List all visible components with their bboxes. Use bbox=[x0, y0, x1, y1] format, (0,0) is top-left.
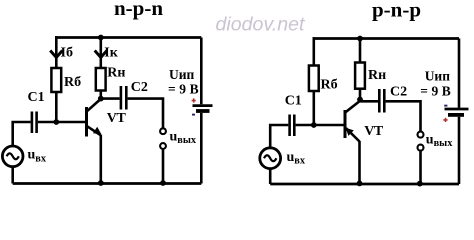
svg-text:uвых: uвых bbox=[170, 129, 197, 146]
node: bottom rail dot at output bbox=[160, 180, 166, 186]
label - minus right battery bbox=[444, 105, 447, 107]
terminal: output upper bbox=[160, 128, 166, 134]
wire: C2 to output corner bbox=[128, 99, 163, 129]
label + plus left battery bbox=[192, 98, 196, 102]
label Rb right bbox=[321, 78, 338, 93]
wire: top rail right circuit bbox=[313, 37, 460, 40]
transistor VT (n-p-n) bbox=[87, 99, 102, 137]
label Rb bbox=[64, 75, 81, 90]
wire: C2 to output corner right bbox=[386, 101, 421, 131]
wire: source to bottom rail right bbox=[269, 168, 272, 184]
capacitor C2 right bbox=[379, 89, 384, 113]
wire: emitter to bottom rail bbox=[100, 135, 103, 184]
title n-p-n bbox=[114, 0, 163, 20]
svg-text:p-n-p: p-n-p bbox=[372, 0, 421, 22]
wire: collector node to C2 bbox=[101, 97, 120, 100]
wire: Rn down to collector node right bbox=[359, 89, 362, 102]
resistor Rn bbox=[96, 68, 106, 91]
wire: Ib branch vertical bbox=[55, 36, 58, 68]
svg-text:C2: C2 bbox=[390, 85, 407, 100]
svg-text:Rн: Rн bbox=[368, 68, 386, 83]
svg-text:uвых: uвых bbox=[426, 132, 453, 149]
node: junction dot top rail / Ik bbox=[98, 35, 104, 41]
svg-text:C2: C2 bbox=[131, 80, 148, 95]
svg-text:Iк: Iк bbox=[104, 46, 118, 61]
svg-text:Uип: Uип bbox=[169, 67, 195, 82]
wire: emitter to bottom rail right bbox=[358, 141, 361, 184]
label C2 right bbox=[390, 85, 407, 100]
label Uip left bbox=[169, 67, 195, 82]
svg-text:Rн: Rн bbox=[107, 66, 125, 81]
label C1 right bbox=[285, 94, 302, 109]
label uvx bbox=[28, 148, 47, 165]
source uvx generator right bbox=[260, 148, 281, 169]
resistor Rb bbox=[51, 68, 61, 92]
wire: bottom rail right circuit bbox=[270, 183, 459, 186]
wire: lower terminal to bottom rail bbox=[162, 149, 165, 184]
svg-text:Uип: Uип bbox=[425, 68, 451, 83]
wire: top rail left circuit bbox=[55, 36, 201, 39]
svg-text:VT: VT bbox=[107, 111, 127, 126]
label VT right bbox=[364, 124, 384, 139]
arrow Ib current bbox=[50, 51, 62, 58]
label = 9 V right bbox=[420, 83, 451, 98]
svg-text:diodov.net: diodov.net bbox=[216, 14, 307, 36]
label uvx right bbox=[287, 150, 306, 167]
wire: bottom rail left circuit bbox=[13, 182, 202, 185]
svg-text:uвх: uвх bbox=[28, 148, 47, 165]
label Uip right bbox=[425, 68, 451, 83]
svg-text:uвх: uвх bbox=[287, 150, 306, 167]
svg-text:= 9 В: = 9 В bbox=[420, 83, 451, 98]
label Rn right bbox=[368, 68, 386, 83]
svg-text:Iб: Iб bbox=[61, 46, 73, 61]
svg-text:n-p-n: n-p-n bbox=[114, 0, 163, 20]
wire: collector node to C2 right bbox=[360, 100, 378, 103]
resistor Rn right bbox=[355, 63, 365, 89]
resistor Rb right bbox=[309, 66, 319, 92]
label = 9 V left bbox=[168, 82, 199, 97]
node: collector junction dot bbox=[98, 96, 104, 102]
label uvyh right bbox=[426, 132, 453, 149]
node: bottom rail dot at emitter bbox=[98, 180, 104, 186]
label C2 bbox=[131, 80, 148, 95]
wire: C1 to base right bbox=[296, 124, 344, 127]
svg-text:Rб: Rб bbox=[64, 75, 81, 90]
battery GB2 bbox=[445, 39, 469, 185]
wire: lower terminal to bottom rail right bbox=[419, 151, 422, 184]
node: bottom rail dot at output right bbox=[417, 181, 423, 187]
label + plus right battery bbox=[443, 118, 447, 122]
capacitor C1 right bbox=[290, 115, 295, 137]
battery GB1 bbox=[193, 38, 213, 184]
wire: Rb to base rail bbox=[55, 92, 58, 122]
svg-text:Rб: Rб bbox=[321, 78, 338, 93]
label C1 bbox=[28, 90, 45, 105]
node: base junction dot bbox=[53, 119, 59, 125]
svg-text:C1: C1 bbox=[285, 94, 302, 109]
node: top rail dot right bbox=[357, 36, 363, 42]
capacitor C2 bbox=[121, 86, 126, 110]
node: bottom rail dot at emitter right bbox=[357, 181, 363, 187]
node: base junction dot right bbox=[311, 122, 317, 128]
terminal: output lower right bbox=[418, 145, 424, 151]
label Ik bbox=[104, 46, 118, 61]
svg-text:C1: C1 bbox=[28, 90, 45, 105]
wire: source to C1 right bbox=[270, 125, 288, 148]
node: collector junction dot right bbox=[357, 97, 363, 103]
title p-n-p bbox=[372, 0, 421, 22]
transistor VT (p-n-p) bbox=[345, 101, 360, 142]
wire: C1 to base bbox=[38, 121, 85, 124]
label Ib bbox=[61, 46, 73, 61]
svg-text:VT: VT bbox=[364, 124, 384, 139]
label uvyh bbox=[170, 129, 197, 146]
terminal: output lower bbox=[160, 143, 166, 149]
watermark diodov.net bbox=[216, 14, 307, 36]
capacitor C1 bbox=[32, 112, 37, 134]
wire: source to C1 bbox=[13, 122, 31, 147]
wire: Rn down to collector node bbox=[100, 91, 103, 101]
source uvx generator bbox=[2, 146, 23, 167]
wire: Ik branch vertical bbox=[100, 38, 103, 69]
label VT bbox=[107, 111, 127, 126]
terminal: output upper right bbox=[418, 132, 424, 138]
wire: Rn branch vertical right bbox=[359, 39, 362, 63]
label - minus left battery bbox=[192, 114, 195, 116]
wire: source to bottom rail bbox=[11, 167, 14, 184]
label Rn bbox=[107, 66, 125, 81]
arrow Ik current bbox=[95, 51, 107, 58]
wire: Rb branch vertical right bbox=[312, 37, 315, 65]
wire: Rb to base rail right bbox=[312, 91, 315, 125]
svg-text:= 9 В: = 9 В bbox=[168, 82, 199, 97]
